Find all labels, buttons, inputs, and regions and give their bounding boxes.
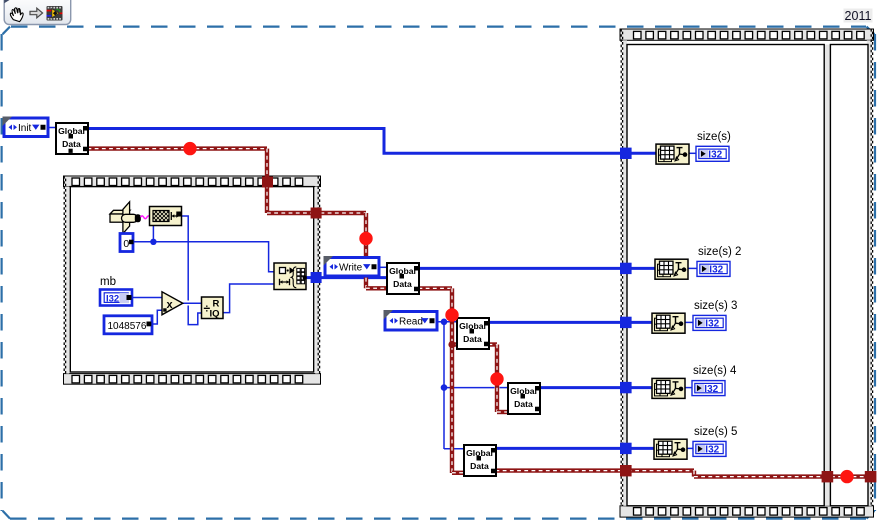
error wire into Global 4 — [497, 410, 509, 414]
error wire down to Global 4 — [495, 345, 499, 413]
svg-text:2011: 2011 — [845, 9, 872, 23]
error wire into Global W — [366, 286, 388, 290]
breakpoint dot 3 — [445, 308, 458, 321]
inner sequence frame (inner rect) — [70, 187, 313, 372]
wire Init to Global Data 1 — [46, 127, 57, 129]
svg-text:I32: I32 — [709, 265, 723, 276]
constant 0 — [120, 234, 134, 252]
error wire in frame 2 — [831, 474, 866, 478]
wire tunnel to array size row5 — [628, 447, 654, 450]
error wire Global W out — [419, 286, 453, 290]
label size(s) 3 — [694, 300, 737, 312]
error wire down main branch — [450, 288, 454, 473]
node array size row1 — [656, 144, 689, 164]
subVI Global Data W — [387, 263, 419, 294]
enum constant Read — [384, 310, 438, 330]
tunnel error big-right — [865, 471, 877, 482]
tunnel array big-left row1 — [620, 148, 632, 159]
toolbar — [4, 0, 71, 25]
node initialize array — [274, 263, 307, 290]
error wire inside big structure — [628, 471, 824, 477]
wire array Global Data 4 to tunnel row4 — [540, 386, 621, 389]
error wire down into inner structure — [265, 149, 269, 213]
tunnel error inner-right — [311, 208, 322, 219]
label size(s) 2 — [698, 246, 741, 258]
svg-text:Read: Read — [399, 317, 423, 328]
wire Write enum to Global Data W — [377, 266, 388, 268]
tunnel error divider — [822, 471, 834, 482]
junction dot read-branch row4 — [441, 384, 448, 391]
constant 1048576 — [104, 316, 152, 334]
node array size row4 — [652, 378, 685, 398]
breakpoint dot 1 — [183, 142, 196, 155]
node multiply — [162, 292, 183, 315]
junction dot read-enum — [441, 319, 448, 326]
subVI Global Data R — [457, 318, 489, 349]
label size(s) — [697, 131, 731, 143]
label 2011 — [844, 9, 873, 24]
wire array Global Data W to tunnel row2 — [419, 267, 621, 270]
error wire inside inner structure — [267, 211, 316, 215]
junction dot 0-wire — [150, 239, 156, 245]
node quotient and remainder — [202, 297, 224, 320]
svg-text:Data: Data — [393, 279, 412, 289]
svg-text:I32: I32 — [705, 445, 719, 456]
indicator I32 row5 — [693, 441, 726, 456]
wire array size to I32 row4 — [685, 387, 695, 389]
indicator I32 row3 — [693, 315, 726, 330]
inner flat sequence structure (outer border) — [64, 176, 321, 384]
sequence frame 1 (inner rect) — [627, 45, 824, 506]
svg-text:size(s) 3: size(s) 3 — [694, 300, 737, 312]
error wire down to Global W — [364, 213, 368, 288]
tunnel array inner-right — [311, 272, 322, 283]
wire array size to I32 row5 — [687, 447, 696, 449]
wire Read branch to Global Data 4 — [444, 387, 509, 389]
node array size row5 — [654, 439, 687, 459]
error wire inner tunnel to corner — [321, 211, 367, 215]
indicator I32 row1 — [696, 146, 729, 161]
svg-text:size(s) 5: size(s) 5 — [694, 426, 737, 438]
svg-text:size(s): size(s) — [697, 131, 731, 143]
wire array size to I32 row1 — [689, 152, 699, 154]
wire array size to I32 row3 — [685, 321, 696, 323]
wire mb to multiply — [132, 297, 163, 299]
wire tunnel to array size row4 — [628, 386, 652, 389]
svg-text:0: 0 — [123, 238, 129, 250]
svg-text:x: x — [167, 299, 174, 311]
node path-pin icon — [110, 202, 141, 234]
wire 0 constant to initialize array — [133, 242, 275, 272]
junction dot error branch — [448, 341, 455, 348]
wire quotient to initialize array — [223, 284, 275, 313]
wire tunnel to array size row3 — [628, 321, 652, 324]
svg-text:mb: mb — [100, 276, 116, 288]
label size(s) 5 — [694, 426, 737, 438]
svg-text:size(s) 2: size(s) 2 — [698, 246, 741, 258]
wire string length bottom to 0-node — [152, 225, 154, 242]
error wire Global1 out — [88, 146, 268, 150]
wire Read branch vertical — [443, 322, 445, 449]
wire tunnel to array size row1 — [628, 152, 656, 155]
indicator I32 row4 — [692, 381, 725, 396]
tunnel array big-left row5 — [620, 443, 632, 454]
tunnel error big-left — [620, 465, 632, 476]
svg-text:I32: I32 — [106, 294, 119, 305]
wire array inner tunnel to Global Data W — [320, 276, 388, 279]
subVI Global Data 5 — [464, 445, 496, 476]
svg-text:Write: Write — [339, 263, 363, 274]
tunnel array big-left row2 — [620, 263, 632, 274]
error wire branch into Global R — [452, 342, 458, 346]
breakpoint dot 4 — [490, 372, 503, 385]
error wire Global R out — [489, 342, 498, 346]
flat sequence structure (outer border) — [620, 29, 874, 517]
tunnel array big-left row3 — [620, 317, 632, 328]
wire string length out — [181, 216, 202, 325]
wire array size to I32 row2 — [688, 267, 700, 269]
control mb I32 — [100, 276, 132, 306]
svg-text:IQ: IQ — [210, 309, 220, 320]
wire multiply to quotient — [183, 302, 202, 304]
wire tunnel to array size row2 — [628, 267, 655, 270]
svg-text:Data: Data — [470, 461, 489, 471]
node array size row2 — [655, 259, 688, 279]
svg-text:I32: I32 — [704, 384, 718, 395]
label size(s) 4 — [693, 365, 737, 377]
breakpoint dot 2 — [359, 232, 372, 245]
svg-text:size(s) 4: size(s) 4 — [693, 365, 737, 377]
indicator I32 row2 — [697, 261, 730, 276]
wire initialize array to tunnel — [306, 276, 313, 279]
wire Read branch to Global Data 5 — [444, 448, 465, 450]
tunnel array big-left row4 — [620, 382, 632, 393]
error wire Global 5 out — [496, 468, 621, 472]
subVI Global Data 4 — [508, 383, 540, 414]
node array size row3 — [652, 313, 685, 333]
svg-text:1048576: 1048576 — [108, 321, 147, 332]
node string length — [150, 207, 182, 226]
wire array Global Data 5 to tunnel row5 — [496, 447, 621, 450]
wire array from Global Data 1 to frame tunnel row1 — [88, 129, 621, 154]
wire array Global Data R to tunnel row3 — [489, 321, 621, 324]
svg-text:I32: I32 — [705, 319, 719, 330]
enum constant Init — [3, 117, 49, 137]
enum constant Write — [324, 256, 380, 276]
svg-text:Data: Data — [62, 139, 81, 149]
svg-text:Data: Data — [463, 334, 482, 344]
svg-text:Data: Data — [514, 399, 533, 409]
breakpoint dot 5 — [840, 470, 853, 483]
subVI Global Data 1 — [56, 123, 88, 154]
wire Read enum out — [435, 321, 458, 323]
tunnel error inner-top — [262, 177, 273, 188]
svg-text:Init: Init — [18, 123, 32, 134]
svg-text:I32: I32 — [708, 150, 722, 161]
sequence frame 2 (inner rect) — [830, 45, 868, 506]
wire string squiggle — [141, 216, 151, 219]
error wire into Global 5 — [452, 471, 465, 475]
wire 1048576 to multiply — [152, 310, 163, 324]
